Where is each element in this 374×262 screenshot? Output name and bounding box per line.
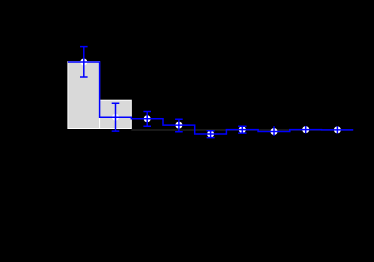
error bar bin 6 — [238, 126, 246, 133]
data marker bin 6 — [239, 126, 246, 133]
data marker bin 5 — [207, 131, 214, 138]
data marker bin 3 — [144, 115, 151, 122]
histogram bar 2 (gray filled, white edge) — [100, 100, 132, 128]
data marker bin 8 — [302, 126, 309, 133]
histogram bar 1 (gray filled, white edge) — [68, 62, 100, 129]
error bar bin 4 — [175, 119, 183, 132]
error bar bin 9 — [336, 126, 338, 133]
error bar bin 2 — [112, 103, 120, 131]
data marker bin 9 — [334, 126, 341, 133]
error bar bin 7 — [273, 126, 275, 136]
blue step line (data histogram) — [68, 62, 353, 134]
error bar bin 1 — [80, 47, 88, 77]
data marker bin 1 — [80, 59, 87, 66]
baseline (faint dark axis line y=0) — [131, 129, 353, 131]
data marker bin 2 — [112, 114, 119, 121]
data marker bin 7 — [271, 128, 278, 135]
error bar bin 3 — [143, 112, 151, 127]
data marker bin 4 — [175, 122, 182, 129]
error bar bin 5 — [207, 131, 215, 138]
error bar bin 8 — [305, 126, 307, 133]
